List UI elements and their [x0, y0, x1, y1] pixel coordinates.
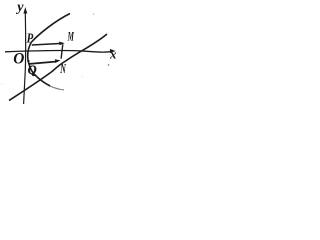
straight line	[9, 34, 107, 101]
segment M to N	[61, 44, 63, 58]
curve end arrowhead (down, near vertex)	[27, 60, 30, 64]
speck top	[93, 14, 94, 15]
speck right	[108, 64, 110, 66]
x-axis arrowhead	[110, 49, 116, 53]
speck left	[1, 84, 2, 85]
svg-text:y: y	[15, 0, 24, 15]
svg-text:O: O	[13, 50, 24, 67]
curve lower tail fading	[50, 86, 64, 90]
y-axis arrowhead	[23, 7, 27, 14]
speck mid	[82, 76, 83, 77]
svg-text:N: N	[60, 62, 67, 77]
svg-text:P: P	[27, 31, 34, 46]
svg-text:M: M	[67, 29, 74, 44]
arrow P to M	[32, 44, 60, 46]
arrow Q to N	[30, 62, 56, 64]
svg-text:x: x	[109, 47, 117, 62]
svg-text:Q: Q	[28, 63, 37, 77]
x-axis	[5, 50, 111, 52]
y-axis	[24, 10, 26, 105]
curve (parabola-like, upper branch to lower branch)	[28, 14, 70, 87]
